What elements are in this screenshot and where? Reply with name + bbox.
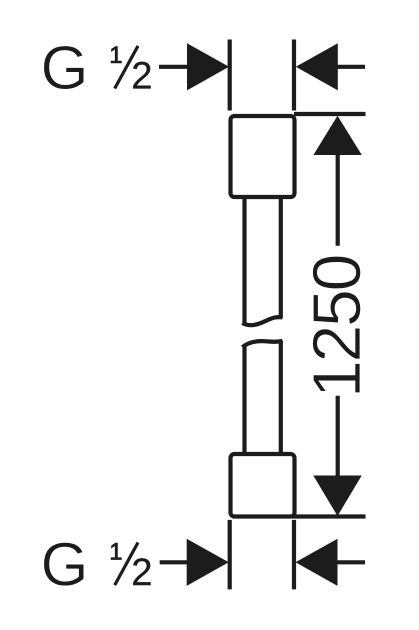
leader tail top-right (336, 65, 365, 69)
leader tail top-left (159, 65, 192, 69)
dimension extension line top (294, 112, 366, 116)
extension line bottom-right vertical (292, 520, 296, 590)
dimension extension line bottom (292, 514, 366, 518)
dimension line upper segment (336, 154, 340, 246)
arrowhead top-left pointing right (187, 43, 229, 90)
leader tail bottom-right (336, 560, 365, 564)
hose tube lower-left edge (242, 347, 246, 453)
arrowhead bottom-left pointing right (187, 539, 229, 586)
dimension arrowhead up (313, 116, 361, 155)
label G bottom: fraction denominator 2 (133, 558, 151, 585)
hose tube lower-right edge (279, 341, 283, 453)
break symbol upper wavy line (242, 317, 282, 325)
dimension arrowhead down (313, 476, 361, 517)
hose fitting bottom (connector box) (231, 454, 295, 517)
extension line bottom-left vertical (228, 520, 232, 590)
dimension text 1250 (313, 256, 361, 393)
label G bottom: fraction slash (115, 543, 138, 586)
hose tube upper-left edge (242, 197, 246, 323)
arrowhead top-right pointing left (296, 43, 338, 90)
arrowhead bottom-right pointing left (296, 539, 338, 586)
label G top: letter G (44, 46, 84, 90)
dimension line lower segment (336, 396, 340, 477)
leader tail bottom-left (160, 560, 192, 564)
label G bottom: fraction numerator 1 (111, 543, 121, 559)
label G top: fraction slash (115, 46, 138, 89)
break symbol lower wavy line (242, 341, 282, 347)
extension line top-left vertical (228, 40, 232, 111)
hose fitting top (connector box) (231, 116, 295, 197)
label G top: fraction denominator 2 (133, 62, 151, 89)
extension line top-right vertical (292, 40, 296, 111)
label G bottom: letter G (44, 542, 84, 586)
hose tube upper-right edge (279, 197, 283, 317)
label G top: fraction numerator 1 (111, 47, 121, 63)
